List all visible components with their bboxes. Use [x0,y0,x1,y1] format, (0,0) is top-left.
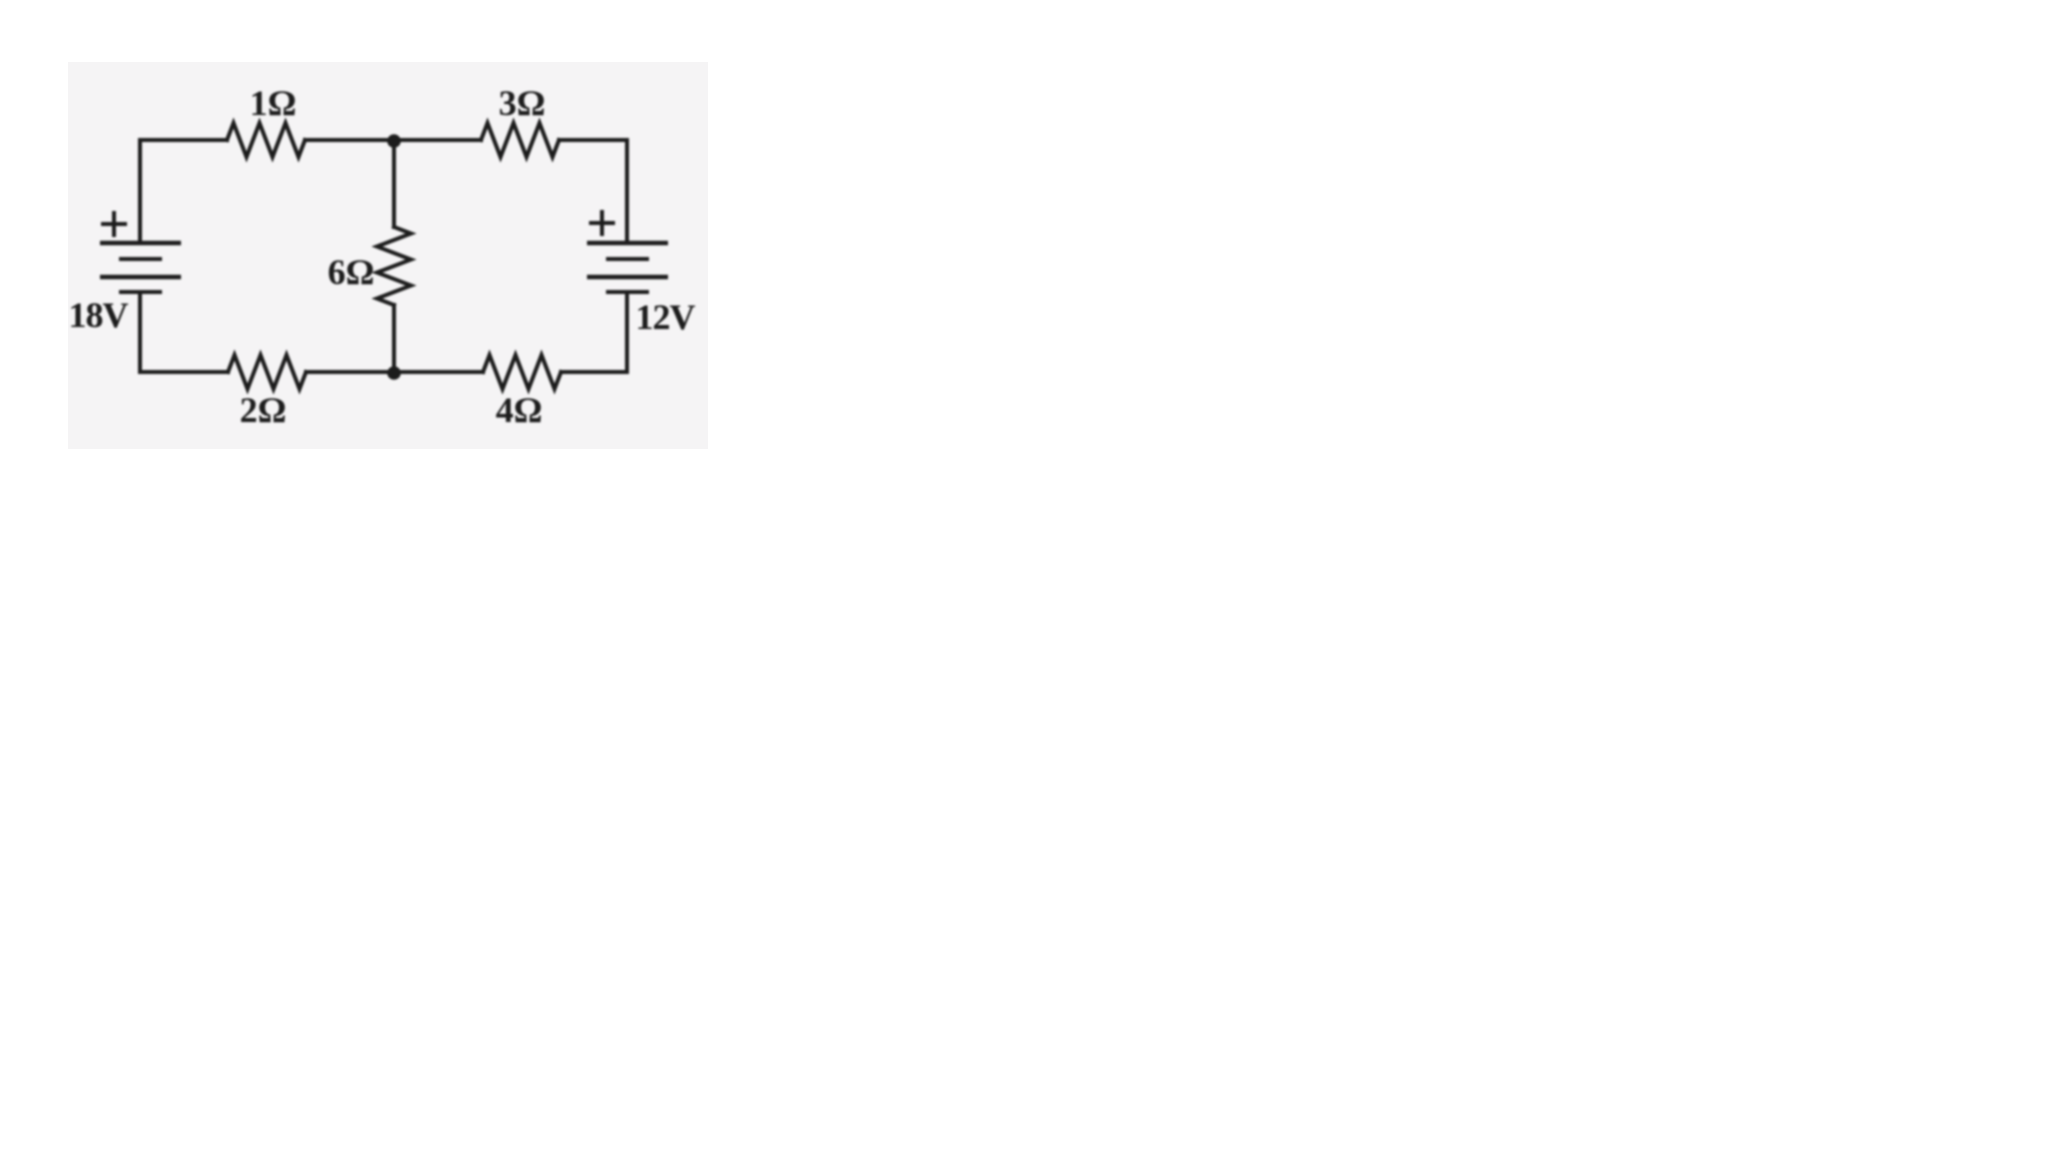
plus sign of battery B2 [589,210,615,236]
wire top-right horizontal segment [559,138,627,142]
svg-text:1Ω: 1Ω [250,83,297,123]
svg-text:12V: 12V [636,297,696,337]
wire middle vertical lower (resistor R5 to node B) [392,305,396,372]
wire top-middle segment through node A [305,138,481,142]
node B junction dot (bottom middle) [387,366,401,380]
resistor R4 4ohm zigzag [483,355,561,389]
circuit panel background [68,62,708,449]
resistor R5 6ohm vertical zigzag [377,227,411,305]
wire left vertical upper (battery B1 + terminal to top wire) [138,140,142,243]
battery B1 18V long plate 1 (positive) [100,241,181,246]
battery B1 18V short plate 2 [119,257,162,261]
resistor R2 2ohm zigzag [228,355,306,389]
wire right vertical upper (top wire to battery B2 + terminal) [625,140,629,243]
svg-text:4Ω: 4Ω [496,390,543,430]
battery B1 18V long plate 3 [100,275,181,280]
svg-text:6Ω: 6Ω [328,252,375,292]
svg-text:18V: 18V [69,295,129,335]
wire right vertical lower (battery B2 - terminal to bottom wire) [625,292,629,372]
wire bottom-middle segment through node B [306,370,483,374]
battery B2 12V short plate 4 (negative) [606,290,649,294]
battery B2 12V long plate 1 (positive) [587,241,668,246]
node A junction dot (top middle) [387,134,401,148]
battery B1 18V short plate 4 (negative) [119,290,162,294]
battery B2 12V short plate 2 [606,257,649,261]
wire left vertical lower (battery B1 - terminal to bottom wire) [138,292,142,372]
wire bottom-right horizontal segment [561,370,627,374]
wire middle vertical upper (node A to resistor R5) [392,140,396,227]
svg-text:3Ω: 3Ω [499,83,546,123]
wire bottom-left horizontal segment [140,370,228,374]
svg-text:2Ω: 2Ω [240,390,287,430]
battery B2 12V long plate 3 [587,275,668,280]
resistor R1 1ohm zigzag [227,123,305,157]
plus sign of battery B1 [101,211,127,237]
wire top-left horizontal segment [140,138,227,142]
resistor R3 3ohm zigzag [481,123,559,157]
